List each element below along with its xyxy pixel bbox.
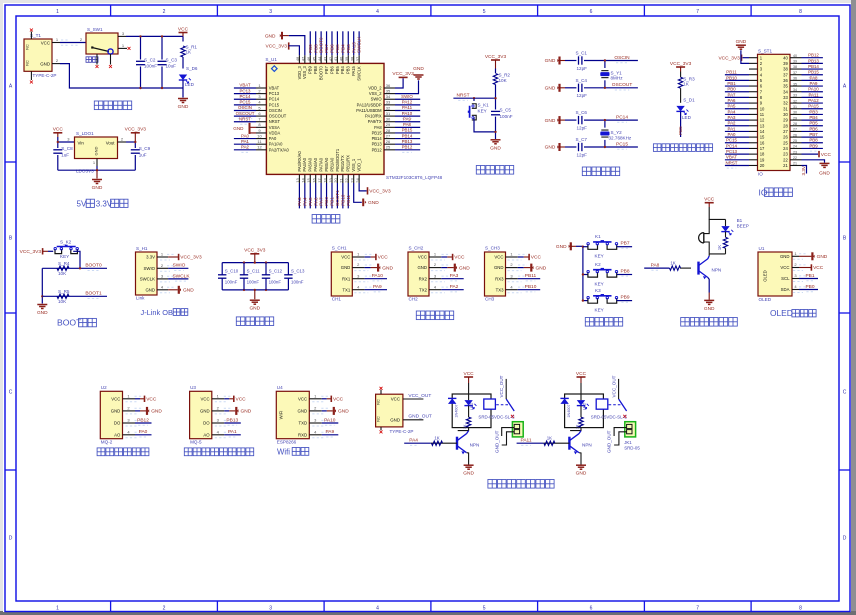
relay resistor 1K bbox=[579, 417, 583, 427]
svg-text:TYPE-C-2P: TYPE-C-2P bbox=[33, 73, 57, 78]
svg-text:U3: U3 bbox=[190, 385, 196, 390]
svg-text:S_CH1: S_CH1 bbox=[332, 246, 347, 251]
S_CH2 GND port bbox=[441, 267, 447, 269]
svg-text:38: 38 bbox=[783, 67, 788, 72]
wire LED to bottom rail bbox=[182, 80, 184, 88]
svg-text:GND: GND bbox=[338, 409, 349, 415]
U3 pin3 wire bbox=[224, 422, 241, 424]
svg-text:K3: K3 bbox=[595, 288, 601, 293]
svg-text:28: 28 bbox=[386, 128, 391, 133]
svg-text:DO: DO bbox=[114, 421, 121, 426]
capacitor S_C3 branch bbox=[161, 36, 163, 59]
svg-text:Vout: Vout bbox=[106, 140, 116, 145]
svg-text:VBAT: VBAT bbox=[239, 83, 250, 88]
resistor S_R1 bbox=[181, 46, 185, 57]
svg-text:PA0: PA0 bbox=[269, 136, 277, 141]
svg-text:8: 8 bbox=[799, 605, 802, 611]
ground reset bbox=[491, 139, 501, 141]
svg-text:OLED: OLED bbox=[770, 308, 793, 318]
svg-text:1: 1 bbox=[56, 605, 59, 611]
svg-text:SRD-05: SRD-05 bbox=[624, 446, 640, 451]
S_ST1 left pin 17 bbox=[749, 147, 758, 149]
svg-text:GND: GND bbox=[200, 409, 210, 414]
relay terminal green connector bbox=[512, 422, 523, 437]
svg-text:1: 1 bbox=[56, 9, 59, 15]
svg-text:SCL: SCL bbox=[781, 276, 790, 281]
svg-text:VCC: VCC bbox=[111, 396, 120, 401]
S_ST1 left pin 2 bbox=[749, 62, 758, 64]
svg-text:36: 36 bbox=[783, 78, 788, 83]
relay outline box bbox=[565, 394, 604, 428]
alarm top node bbox=[709, 207, 725, 219]
svg-text:PB1: PB1 bbox=[805, 273, 814, 279]
svg-text:PB3: PB3 bbox=[809, 109, 818, 114]
svg-text:NC: NC bbox=[26, 44, 30, 50]
capacitor S_C11 bbox=[243, 263, 245, 275]
svg-text:PB13: PB13 bbox=[808, 58, 819, 63]
svg-text:29: 29 bbox=[793, 116, 797, 120]
alarm bottom node to collector bbox=[709, 253, 725, 255]
svg-text:17: 17 bbox=[317, 178, 322, 183]
capacitor S_C13 bbox=[287, 263, 289, 275]
U2 pin4 wire bbox=[135, 434, 152, 436]
svg-text:PB5: PB5 bbox=[335, 44, 340, 53]
filter top rail bbox=[222, 262, 288, 264]
S_CH2 VCC port bbox=[441, 256, 447, 258]
relay base net wire bbox=[404, 442, 431, 444]
svg-text:PA8: PA8 bbox=[403, 122, 412, 127]
chip right pin 28 PB15 bbox=[384, 132, 395, 134]
S_ST1 right pin 38 bbox=[790, 68, 802, 70]
S_ST1 right pin 36 bbox=[790, 79, 802, 81]
svg-text:OSCOUT: OSCOUT bbox=[236, 111, 255, 116]
svg-text:VBAT: VBAT bbox=[269, 86, 280, 91]
svg-text:10K: 10K bbox=[58, 299, 67, 304]
svg-text:VCC: VCC bbox=[146, 397, 157, 403]
svg-text:21: 21 bbox=[339, 178, 344, 183]
svg-text:1K: 1K bbox=[717, 245, 722, 250]
svg-text:KEY: KEY bbox=[60, 254, 69, 259]
U1 SDA wire bbox=[799, 289, 818, 291]
svg-text:1N4007: 1N4007 bbox=[454, 404, 458, 417]
svg-text:VCC: VCC bbox=[341, 255, 350, 260]
svg-text:VCC: VCC bbox=[454, 255, 465, 261]
svg-text:SDA: SDA bbox=[781, 287, 790, 292]
svg-text:PA11: PA11 bbox=[402, 105, 413, 110]
svg-text:PA9: PA9 bbox=[373, 284, 382, 290]
capacitor S_C6 bbox=[565, 119, 576, 121]
relay switch dashed link bbox=[496, 404, 509, 406]
U3 VCC port bbox=[224, 398, 229, 400]
resistor S_R3 bbox=[678, 77, 682, 88]
svg-text:GND: GND bbox=[556, 244, 567, 250]
svg-text:U4: U4 bbox=[277, 385, 283, 390]
relay collector wire bbox=[458, 428, 469, 431]
svg-text:PB12: PB12 bbox=[137, 417, 149, 423]
svg-text:PB5: PB5 bbox=[335, 65, 340, 73]
pin1 wire to VCC_3V3 bbox=[168, 256, 179, 258]
resistor S_R2 bbox=[493, 74, 497, 85]
S_ST1 right pin 34 bbox=[790, 91, 802, 93]
svg-text:PA10/RX: PA10/RX bbox=[365, 114, 382, 119]
chip right pin 33 PA12/USBDP bbox=[384, 104, 395, 106]
svg-text:Link: Link bbox=[136, 296, 145, 301]
svg-text:23: 23 bbox=[783, 152, 788, 157]
svg-text:PB5: PB5 bbox=[678, 126, 683, 135]
svg-text:PB2/BOOT1: PB2/BOOT1 bbox=[335, 148, 340, 171]
svg-text:GND: GND bbox=[819, 171, 830, 177]
title reset circuit bbox=[476, 166, 513, 175]
svg-text:30: 30 bbox=[783, 112, 788, 117]
svg-text:SRD-05VDC-SL-C: SRD-05VDC-SL-C bbox=[478, 415, 514, 420]
chip bottom pin 18 PB0/A0 bbox=[326, 174, 328, 183]
module U4 body bbox=[276, 391, 309, 438]
wire S_C1 to net bbox=[584, 60, 638, 62]
svg-text:PA5: PA5 bbox=[308, 197, 313, 206]
wire S_C7 to net bbox=[584, 146, 638, 148]
svg-text:25: 25 bbox=[783, 140, 788, 145]
chip right pin 34 SWIO bbox=[384, 98, 395, 100]
svg-text:7: 7 bbox=[696, 605, 699, 611]
svg-text:GND: GND bbox=[92, 185, 103, 191]
svg-text:VCC_OUT: VCC_OUT bbox=[408, 393, 431, 399]
svg-text:PB14: PB14 bbox=[372, 136, 383, 141]
svg-text:OSCOUT: OSCOUT bbox=[612, 82, 633, 88]
power port GND below chip bbox=[362, 199, 364, 207]
buzzer branch bbox=[708, 219, 710, 230]
svg-text:PB8: PB8 bbox=[620, 268, 629, 274]
svg-text:33: 33 bbox=[386, 100, 391, 105]
svg-text:PA2/TX/A0: PA2/TX/A0 bbox=[269, 147, 290, 152]
wire VDD_1 to VCC_3V3 bbox=[359, 183, 367, 191]
S_ST1 right pin 21 bbox=[790, 164, 802, 166]
relay NO contact bbox=[623, 415, 626, 418]
ground relay bbox=[576, 464, 586, 466]
title serial circuit bbox=[416, 311, 453, 320]
svg-text:32: 32 bbox=[793, 99, 797, 103]
svg-text:1K: 1K bbox=[547, 436, 552, 441]
svg-text:VSSA: VSSA bbox=[269, 125, 280, 130]
BOOT0 wire bbox=[42, 267, 107, 269]
title gas module bbox=[184, 448, 253, 456]
S_CH3 RX wire bbox=[518, 278, 540, 280]
svg-text:GND_OUT: GND_OUT bbox=[607, 430, 612, 453]
wire vcc to pin3 and cap bbox=[58, 137, 75, 142]
S_ST1 right pin 33 bbox=[790, 96, 802, 98]
svg-text:PA7/A0: PA7/A0 bbox=[319, 157, 324, 171]
base resistor 1K alarm bbox=[680, 267, 691, 269]
regulator S_LDO1 bbox=[75, 137, 118, 159]
svg-text:PB10: PB10 bbox=[340, 194, 345, 206]
svg-text:PC15: PC15 bbox=[240, 100, 252, 105]
svg-text:TYPE-C-2P: TYPE-C-2P bbox=[390, 429, 414, 434]
svg-text:5: 5 bbox=[483, 605, 486, 611]
svg-text:PB6: PB6 bbox=[330, 44, 335, 53]
svg-text:PA1: PA1 bbox=[728, 126, 737, 131]
svg-text:32: 32 bbox=[783, 101, 788, 106]
chip left pin 6 OSCOUT bbox=[256, 115, 266, 117]
svg-text:VCC: VCC bbox=[494, 255, 503, 260]
svg-text:S_C11: S_C11 bbox=[247, 269, 261, 274]
svg-text:37: 37 bbox=[783, 72, 788, 77]
svg-text:35: 35 bbox=[793, 82, 797, 86]
svg-text:NRST: NRST bbox=[726, 160, 738, 165]
svg-text:20: 20 bbox=[333, 178, 338, 183]
bottom rail ldo bbox=[58, 169, 136, 171]
svg-text:17: 17 bbox=[760, 146, 765, 151]
svg-text:MQ-5: MQ-5 bbox=[190, 440, 202, 445]
relay NO contact bbox=[511, 415, 514, 418]
chip bottom pin 14 PA4/A0 bbox=[304, 174, 306, 183]
svg-text:PC13: PC13 bbox=[726, 149, 738, 154]
svg-text:10K: 10K bbox=[499, 78, 508, 83]
wire to R3 bbox=[680, 72, 682, 78]
svg-text:18: 18 bbox=[760, 152, 765, 157]
chip top pin 41 PB5 bbox=[336, 55, 338, 63]
filter bottom rail bbox=[222, 289, 288, 291]
svg-text:22: 22 bbox=[793, 156, 797, 160]
U2 GND port bbox=[135, 410, 140, 412]
svg-text:PA10: PA10 bbox=[372, 273, 384, 279]
svg-text:SWCLK: SWCLK bbox=[140, 277, 155, 282]
svg-text:SWIO: SWIO bbox=[371, 97, 382, 102]
wire to resistor R2 bbox=[495, 69, 497, 74]
svg-text:PA3: PA3 bbox=[297, 197, 302, 206]
chip right pin 29 PA8 bbox=[384, 126, 395, 128]
svg-text:1K: 1K bbox=[576, 424, 580, 429]
left rail boot bbox=[41, 268, 43, 303]
chip top pin 43 PB7 bbox=[326, 55, 328, 63]
title smoke module bbox=[97, 448, 149, 456]
svg-text:24: 24 bbox=[355, 178, 360, 183]
wire K1 to net bbox=[617, 246, 633, 248]
crystal S_Y2 bbox=[604, 120, 606, 128]
svg-text:PA12: PA12 bbox=[402, 100, 413, 105]
svg-text:35: 35 bbox=[386, 88, 391, 93]
S_ST1 right pin 25 bbox=[790, 142, 802, 144]
svg-text:15: 15 bbox=[306, 178, 311, 183]
U4 VCC port bbox=[322, 398, 327, 400]
svg-text:20: 20 bbox=[760, 163, 765, 168]
svg-text:OSCIN: OSCIN bbox=[614, 55, 630, 61]
svg-text:100nF: 100nF bbox=[144, 64, 157, 69]
title main chip bbox=[312, 215, 340, 224]
svg-text:VCC: VCC bbox=[41, 40, 50, 45]
wire GND to VSS_3 bbox=[289, 36, 305, 56]
svg-text:29: 29 bbox=[783, 118, 788, 123]
svg-text:GND: GND bbox=[545, 86, 556, 92]
svg-text:GND_OUT: GND_OUT bbox=[408, 414, 432, 420]
svg-text:OSCIN: OSCIN bbox=[269, 108, 282, 113]
svg-text:10: 10 bbox=[257, 133, 262, 138]
S_ST1 left pin 4 bbox=[749, 74, 758, 76]
svg-text:40: 40 bbox=[783, 55, 788, 60]
svg-text:19: 19 bbox=[328, 178, 333, 183]
title alarm circuit bbox=[681, 318, 738, 327]
svg-text:PB1: PB1 bbox=[727, 81, 736, 86]
S_ST1 right pin 35 bbox=[790, 85, 802, 87]
svg-text:PB1/A0: PB1/A0 bbox=[329, 157, 334, 172]
svg-text:PB13: PB13 bbox=[226, 417, 238, 423]
chip right pin 25 PB12 bbox=[384, 149, 395, 151]
chip top pin 46 PB9 bbox=[309, 55, 311, 63]
svg-text:S_U1: S_U1 bbox=[265, 57, 277, 62]
chip right pin 27 PB14 bbox=[384, 138, 395, 140]
svg-text:OSCOUT: OSCOUT bbox=[269, 114, 287, 119]
typec out top stub bbox=[380, 390, 382, 394]
power port GND at VSSA/VDDA bbox=[250, 126, 257, 128]
svg-text:PC13: PC13 bbox=[240, 88, 252, 93]
svg-text:13: 13 bbox=[760, 123, 765, 128]
svg-text:GND_OUT: GND_OUT bbox=[494, 430, 499, 453]
svg-text:AO: AO bbox=[203, 432, 210, 437]
S_ST1 right pin 39 bbox=[790, 62, 802, 64]
svg-text:VCC: VCC bbox=[391, 396, 400, 401]
S_ST1 left pin 7 bbox=[749, 91, 758, 93]
svg-text:31: 31 bbox=[793, 105, 797, 109]
svg-text:S_CH3: S_CH3 bbox=[485, 246, 500, 251]
chip left pin 1 VBAT bbox=[256, 87, 266, 89]
svg-text:VCC_3V3: VCC_3V3 bbox=[392, 71, 414, 77]
chip left pin 10 PA0 bbox=[256, 138, 266, 140]
S_ST1 right pin 26 bbox=[790, 136, 802, 138]
power port GND S_C4 bbox=[558, 84, 560, 92]
chip right pin 26 PB13 bbox=[384, 143, 395, 145]
terminal wires GND_OUT bbox=[614, 428, 627, 436]
svg-text:VSS_3: VSS_3 bbox=[302, 65, 307, 78]
svg-text:5: 5 bbox=[483, 9, 486, 15]
svg-text:S_R5: S_R5 bbox=[58, 289, 70, 294]
svg-text:S_K1: S_K1 bbox=[478, 103, 490, 108]
wire io pin21 3.3V bbox=[802, 165, 807, 173]
S_ST1 left pin 6 bbox=[749, 85, 758, 87]
S_ST1 right pin 30 bbox=[790, 113, 802, 115]
svg-text:NC: NC bbox=[26, 60, 30, 66]
svg-text:PA2: PA2 bbox=[241, 145, 250, 150]
svg-text:48: 48 bbox=[295, 56, 300, 61]
svg-text:KEY: KEY bbox=[595, 307, 604, 312]
capacitor S_C8 bbox=[57, 142, 59, 148]
wire R2 down to NRST node bbox=[495, 85, 497, 99]
svg-text:CH1: CH1 bbox=[332, 297, 342, 302]
keys left rail bbox=[576, 245, 583, 247]
svg-text:SWIO: SWIO bbox=[401, 94, 413, 99]
wire VSS_1 to GND bbox=[354, 183, 362, 202]
svg-text:VCC: VCC bbox=[53, 127, 64, 133]
S_CH2 RX wire bbox=[441, 278, 463, 280]
svg-text:31: 31 bbox=[783, 106, 788, 111]
svg-text:GND: GND bbox=[817, 254, 828, 260]
svg-text:39: 39 bbox=[793, 60, 797, 64]
svg-text:DO: DO bbox=[203, 421, 210, 426]
relay common wire VCC_OUT bbox=[618, 379, 620, 399]
svg-text:27: 27 bbox=[386, 133, 391, 138]
svg-text:1uF: 1uF bbox=[61, 153, 69, 158]
svg-text:VCC: VCC bbox=[576, 371, 587, 377]
svg-text:38: 38 bbox=[793, 65, 797, 69]
chip right pin 32 PA11/USBDM bbox=[384, 109, 395, 111]
U2 VCC port bbox=[135, 398, 140, 400]
svg-text:5V: 5V bbox=[77, 199, 87, 208]
svg-text:PB5: PB5 bbox=[809, 121, 818, 126]
svg-text:PA6: PA6 bbox=[313, 197, 318, 206]
svg-text:AO: AO bbox=[114, 432, 121, 437]
emitter wire to gnd bbox=[708, 278, 709, 293]
svg-text:7: 7 bbox=[696, 9, 699, 15]
svg-text:KEY: KEY bbox=[478, 109, 487, 114]
svg-text:43: 43 bbox=[322, 56, 327, 61]
svg-text:NC: NC bbox=[377, 416, 381, 422]
svg-text:JK1: JK1 bbox=[624, 440, 632, 445]
chip left pin 5 OSCIN bbox=[256, 109, 266, 111]
svg-text:1K: 1K bbox=[186, 50, 193, 55]
svg-text:VCC: VCC bbox=[201, 396, 210, 401]
S_ST1 left pin 9 bbox=[749, 102, 758, 104]
svg-text:GND: GND bbox=[413, 66, 424, 72]
svg-text:15: 15 bbox=[760, 135, 765, 140]
svg-text:41: 41 bbox=[333, 56, 338, 61]
svg-text:PA3/RX/A0: PA3/RX/A0 bbox=[297, 150, 302, 171]
svg-text:NRST: NRST bbox=[269, 119, 281, 124]
svg-text:12pF: 12pF bbox=[577, 93, 588, 98]
svg-text:2: 2 bbox=[163, 605, 166, 611]
wire VDD_2 to VCC_3V3 bbox=[395, 78, 403, 88]
chip bottom pin 19 PB1/A0 bbox=[331, 174, 333, 183]
switch pin 3 wire to VCC rail bbox=[118, 35, 126, 37]
svg-text:Wifi: Wifi bbox=[277, 447, 290, 456]
svg-text:VCC_3V3: VCC_3V3 bbox=[718, 55, 740, 61]
svg-text:GND: GND bbox=[341, 265, 351, 270]
svg-text:GND: GND bbox=[183, 288, 194, 294]
relay switch arm bbox=[619, 399, 627, 411]
chip bottom pin 21 PB10/TX bbox=[342, 174, 344, 183]
svg-text:PB10: PB10 bbox=[726, 75, 737, 80]
svg-text:PA1: PA1 bbox=[228, 429, 237, 435]
svg-text:RXD: RXD bbox=[298, 432, 307, 437]
svg-text:44: 44 bbox=[317, 56, 322, 61]
module U2 body bbox=[100, 391, 122, 438]
LED branch alarm bbox=[725, 219, 727, 226]
power port GND S_C7 bbox=[558, 143, 560, 151]
chip top pin 38 PA15 bbox=[353, 55, 355, 63]
wire K2 to net bbox=[617, 274, 633, 276]
S_CH2 TX wire bbox=[441, 289, 463, 291]
connector S_CH2 body bbox=[408, 252, 429, 296]
svg-text:PB12: PB12 bbox=[372, 147, 383, 152]
connector TYPE-C-2P out bbox=[376, 394, 403, 427]
key S_K2 bbox=[55, 249, 62, 254]
svg-text:PA3: PA3 bbox=[450, 273, 459, 279]
ground filter bbox=[254, 290, 256, 299]
typec VCC_OUT wire bbox=[403, 398, 424, 400]
svg-text:S_C4: S_C4 bbox=[576, 78, 588, 83]
svg-text:PC15: PC15 bbox=[616, 141, 628, 147]
svg-text:PB12: PB12 bbox=[808, 53, 819, 58]
svg-text:3: 3 bbox=[269, 9, 272, 15]
svg-text:22: 22 bbox=[344, 178, 349, 183]
svg-text:SWCLK: SWCLK bbox=[357, 36, 362, 53]
U1 VCC port bbox=[799, 267, 811, 269]
S_ST1 left pin 12 bbox=[749, 119, 758, 121]
relay switch dashed link bbox=[609, 404, 622, 406]
svg-text:PB11: PB11 bbox=[346, 194, 351, 205]
chip top pin 48 VDD_3 bbox=[298, 55, 300, 63]
svg-text:GND: GND bbox=[463, 471, 474, 477]
svg-text:S_C12: S_C12 bbox=[269, 269, 283, 274]
svg-text:16: 16 bbox=[760, 140, 765, 145]
BOOT1 wire bbox=[42, 295, 107, 297]
chip left pin 12 PA2/TX/A0 bbox=[256, 149, 266, 151]
